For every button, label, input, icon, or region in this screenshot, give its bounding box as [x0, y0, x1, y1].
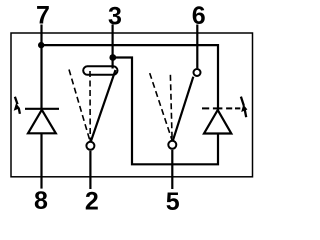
svg-text:6: 6: [192, 2, 206, 30]
svg-text:2: 2: [85, 187, 99, 214]
svg-text:3: 3: [108, 3, 122, 31]
svg-text:7: 7: [36, 1, 50, 29]
svg-text:8: 8: [34, 187, 48, 214]
svg-text:5: 5: [166, 188, 180, 214]
